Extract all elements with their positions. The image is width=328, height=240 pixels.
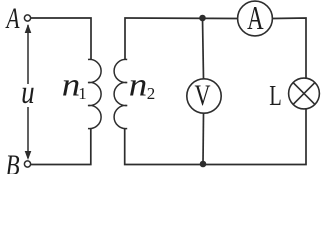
svg-text:A: A (247, 0, 264, 37)
svg-text:1: 1 (78, 84, 87, 103)
svg-text:A: A (5, 2, 20, 35)
svg-text:n: n (129, 68, 148, 104)
svg-text:2: 2 (147, 84, 156, 103)
svg-text:B: B (6, 149, 20, 174)
svg-text:V: V (195, 80, 211, 112)
svg-text:L: L (269, 80, 282, 112)
svg-text:u: u (21, 75, 35, 111)
